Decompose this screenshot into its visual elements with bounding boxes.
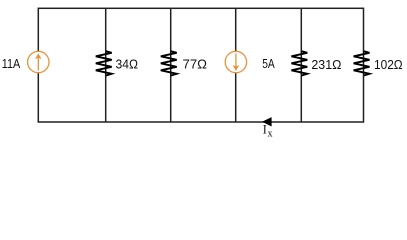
svg-text:77Ω: 77Ω (183, 56, 208, 71)
current source I1 11A arrow (up) (35, 53, 42, 70)
svg-text:I: I (263, 123, 267, 137)
wire: branch of current source I2 5A (235, 8, 237, 122)
resistor 77ohm (161, 51, 177, 75)
svg-text:5A: 5A (262, 56, 275, 71)
svg-text:34Ω: 34Ω (116, 56, 139, 71)
current source I1 11A (circle) (28, 51, 49, 72)
wire: branch of R1 34ohm (105, 8, 107, 122)
svg-text:x: x (268, 128, 273, 139)
wire: branch of R2 77ohm (170, 8, 172, 122)
wire: branch of R3 231ohm (300, 8, 302, 122)
resistor 34ohm (96, 51, 112, 75)
svg-text:102Ω: 102Ω (374, 57, 403, 72)
resistor 231ohm (291, 51, 307, 75)
arrowhead of current Ix on bottom wire (pointing left) (262, 117, 272, 126)
current source I2 5A (circle) (225, 51, 246, 72)
resistor 102ohm (354, 51, 370, 75)
svg-text:11A: 11A (2, 56, 21, 71)
wire: outer rectangle loop (top, left, right, bottom nets) (38, 8, 363, 122)
current source I2 5A arrow (down) (233, 53, 240, 71)
svg-text:231Ω: 231Ω (311, 57, 341, 72)
